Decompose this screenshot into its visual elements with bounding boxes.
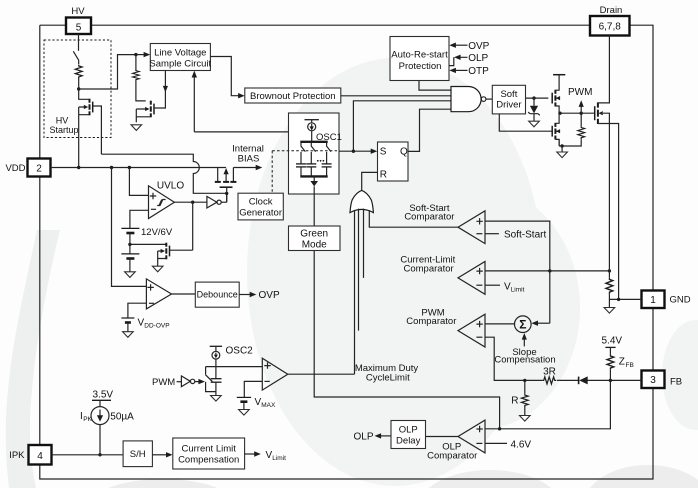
wire PWM comp minus to FB divider [485,337,542,380]
summer sigma circle [485,316,531,333]
node FB junction [609,379,612,382]
wire OSC2 ramp to comparator plus [206,366,263,368]
zener clamp diode [533,98,535,106]
transistor M2 line sample [136,71,168,123]
nand-gate driver logic [451,87,481,112]
pin FB 3 [642,371,683,389]
svg-text:5.4V: 5.4V [602,336,623,347]
wire OR input from max-duty comparator [354,210,356,374]
block OSC1 [289,113,340,194]
svg-text:Auto-Re-start: Auto-Re-start [391,49,448,60]
wire OSC1 to Green Mode [313,186,315,226]
block Clock Generator [238,193,283,220]
svg-text:UVLO: UVLO [157,180,184,191]
ground below M2 [131,125,142,131]
block Brownout Protection [245,88,341,103]
wire OSC1 clock out to latch S [339,150,371,152]
pin IPK 4 [9,445,51,465]
svg-text:DD-OVP: DD-OVP [144,323,169,330]
svg-text:6,7,8: 6,7,8 [599,22,622,33]
svg-text:PWM: PWM [568,87,592,98]
svg-text:OLP: OLP [353,432,373,443]
svg-text:IPK: IPK [9,450,25,461]
svg-text:OTP: OTP [468,66,489,77]
svg-text:Soft-Start: Soft-Start [504,230,546,241]
svg-text:Protection: Protection [399,61,442,72]
svg-text:Mode: Mode [302,240,327,251]
or-gate reset logic (pointing up) [350,190,373,212]
battery VMAX reference [244,381,262,397]
wire UVLO output node [174,201,207,203]
diode FB [557,379,610,381]
wire Brownout to NAND [341,95,451,97]
wire driver to gates [526,97,549,99]
capacitor bank [296,164,332,167]
switch discharge OSC2 [205,367,216,392]
block S/H [123,441,152,467]
wire clock to NAND [353,101,451,151]
transistor driver NMOS [499,113,560,146]
svg-text:Z: Z [619,356,625,367]
op-amp UVLO comparator [149,180,185,218]
svg-text:Comparator: Comparator [404,212,454,223]
svg-text:Σ: Σ [519,318,526,332]
wire UVLO minus to 12V/6V [130,210,149,228]
wire internal bias output arrow [233,167,256,169]
svg-text:FB: FB [626,362,634,369]
transistor M3 internal bias switch [215,168,237,203]
svg-text:4: 4 [37,451,43,462]
wire UVLO plus input from VDD [129,168,148,196]
svg-text:Comparator: Comparator [404,263,454,274]
wire OSC1 to Line Voltage (up arrow) [193,74,195,132]
wire FB node to pin 3 [610,379,641,381]
switch array [301,143,331,164]
wire Line Voltage to Brownout [210,57,238,96]
svg-text:OVP: OVP [259,290,280,301]
pin VDD 2 [5,159,50,177]
resistor ZFB [607,354,614,369]
svg-text:Sample Circuit: Sample Circuit [149,58,211,69]
wire latch Q to NAND [408,109,451,151]
svg-text:Comparator: Comparator [406,316,456,327]
flip-flop S-R latch [378,142,409,181]
comparator maximum duty (OSC2) [262,358,288,390]
svg-text:CycleLimit: CycleLimit [366,372,410,383]
wire FB node down to OLP comparator plus [485,380,610,428]
svg-text:PWM: PWM [152,377,175,388]
node junction line-sense [134,53,137,56]
resistor at line sense [135,55,137,70]
resistor 3R [542,377,556,384]
current source OSC2 [210,346,222,378]
wire auto-restart to NAND [419,81,451,91]
svg-text:R: R [511,396,518,407]
comparator Current-Limit [458,262,485,295]
svg-text:Green: Green [300,229,328,240]
wire CL minus VLimit label [485,284,500,286]
transistor M1 HV startup [79,89,102,168]
svg-text:OLP: OLP [468,53,488,64]
wire OVP comp minus to VDD-OVP ref [128,303,146,318]
wire GND rail to pin 1 [609,298,641,300]
block Auto-Re-start Protection [390,37,449,81]
label PWM arrow [580,105,582,113]
block OLP Delay [391,421,426,449]
svg-text:12V/6V: 12V/6V [141,227,173,238]
svg-text:50µA: 50µA [110,412,134,423]
svg-text:HV: HV [71,6,85,17]
wire current sense to CL comparator plus [485,270,609,272]
svg-text:Debounce: Debounce [197,290,238,300]
svg-text:2: 2 [36,163,42,174]
wire OLP comp to OLP Delay [426,436,459,438]
wire OVP sense from VDD [112,168,147,287]
cap bank rail bottom [300,175,327,177]
cap bank rail top [300,141,327,143]
svg-text:Comparator: Comparator [427,451,477,462]
HV startup dashed box [44,40,111,138]
block Current Limit Compensation [173,438,245,469]
wire OR input from soft-start comparator [369,210,458,227]
svg-text:5: 5 [76,22,82,33]
wire OR input from PWM comparator [358,209,360,331]
current source OSC1 [305,120,319,141]
svg-text:Compensation: Compensation [494,354,555,365]
pin HV 5 [66,6,91,34]
wire OR input from current-limit comparator [363,209,365,278]
node junction HV resistor [77,87,80,90]
capacitor OSC2 [211,379,222,383]
pin Drain 6,7,8 [590,5,630,36]
svg-text:3.5V: 3.5V [93,390,114,401]
wire arrow into Line Voltage box [136,54,145,56]
wire IPK pin to S/H [52,454,124,456]
svg-text:OSC2: OSC2 [226,345,254,356]
wire compensation to VLimit [245,453,255,455]
svg-text:OVP: OVP [468,41,489,52]
control dashed line into OSC1 [272,150,337,152]
ground arrow OSC1 [313,176,315,181]
svg-text:Clock: Clock [249,196,273,207]
wire soft-start minus label [485,233,499,235]
transistor driver PMOS [552,75,565,114]
svg-text:Delay: Delay [396,435,421,446]
battery 12V/6V [121,227,172,272]
wire soft-start plus input [485,221,550,323]
svg-text:Compensation: Compensation [178,454,239,465]
svg-text:GND: GND [670,295,691,306]
resistor gate pulldown [580,113,582,126]
battery VDD-OVP reference [121,318,169,332]
wire OR output to latch R [362,172,378,190]
svg-text:HV: HV [56,116,69,126]
svg-text:BIAS: BIAS [238,154,260,165]
wire soft-start rail into sigma [537,322,550,324]
svg-text:4.6V: 4.6V [511,439,532,450]
svg-text:PK: PK [83,416,92,423]
svg-text:1: 1 [650,295,656,306]
comparator Soft-Start [458,211,485,244]
inverter after UVLO [207,196,227,208]
block Green Mode [289,226,341,251]
transistor power MOSFET [595,36,619,300]
svg-text:Driver: Driver [496,100,521,111]
comparator OLP [458,420,485,453]
svg-text:Generator: Generator [239,207,282,218]
svg-text:Limit: Limit [511,286,525,293]
slope compensation arrow [523,339,525,347]
svg-text:S/H: S/H [130,449,146,460]
wire junction to line-sense [79,55,136,89]
block Soft Driver [492,85,525,114]
wire S/H to compensation [152,454,166,456]
svg-text:Q: Q [400,147,408,158]
svg-text:R: R [380,170,387,181]
wire resistor to junction [78,79,80,90]
current source IPK 50uA [91,407,109,425]
transistor M4 threshold switch [130,202,193,266]
svg-text:S: S [380,147,387,158]
block Debounce [195,282,239,307]
wire OVP comp out to Debounce [172,293,196,295]
svg-text:Soft: Soft [500,89,517,100]
svg-text:3R: 3R [543,367,556,378]
svg-text:VDD: VDD [5,163,25,174]
svg-text:MAX: MAX [261,402,276,409]
svg-text:Drain: Drain [600,5,623,16]
wire pin5 to switch [78,34,80,51]
block Line Voltage Sample Circuit [149,44,211,71]
op-amp OVP comparator [146,279,171,309]
comparator PWM [458,314,485,347]
wire VDD rail [51,167,227,169]
node gate drive [559,112,594,114]
wire max-duty comparator output to OR [288,373,355,375]
wire UVLO-notout hop over VDD rail [101,154,226,193]
node inverter out to M3 gate [226,193,228,202]
wire NAND to Soft Driver [486,98,492,100]
svg-text:OLP: OLP [399,424,418,435]
svg-text:Current Limit: Current Limit [182,443,237,454]
resistor R to ground [524,380,526,393]
pin GND 1 [642,291,691,309]
wire OLP delay output arrow [381,435,392,437]
resistor current sense [608,271,610,278]
wire OLP minus 4.6V [485,442,507,444]
svg-text:Startup: Startup [49,125,78,135]
svg-text:Line Voltage: Line Voltage [154,48,206,59]
svg-text:FB: FB [670,376,682,387]
svg-text:Limit: Limit [272,455,286,462]
svg-text:Brownout Protection: Brownout Protection [250,91,336,102]
wire Green Mode to OLP comparator plus [314,251,499,429]
svg-text:3: 3 [650,375,656,386]
wire Debounce to OVP label [239,294,250,296]
wire OTP input arrow [455,69,467,71]
wire OLP input arrow with jog [449,57,468,65]
resistor HV startup [75,65,82,79]
wire OVP input arrow [455,44,467,46]
switch in HV startup [73,51,79,64]
